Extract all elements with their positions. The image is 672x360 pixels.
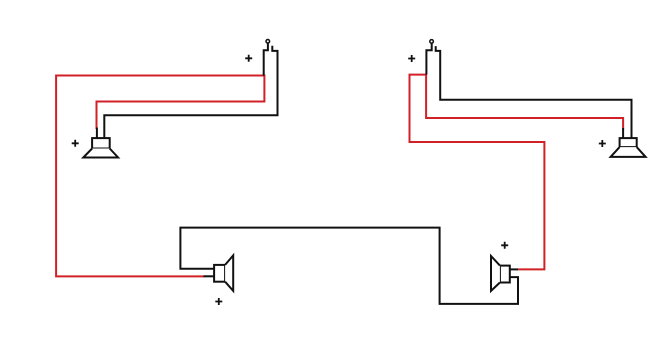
wire black: left plug sleeve to top-left speaker - — [104, 46, 277, 138]
wire red: right plug tip to bottom-right speaker + — [410, 75, 545, 270]
speaker SPK3 bottom-left (stub, magnet, cone) — [204, 255, 234, 291]
+ label at speaker SPK2 — [599, 140, 606, 147]
+ label at speaker SPK4 — [501, 242, 508, 249]
+ label at speaker SPK1 — [72, 140, 79, 147]
speaker SPK2 top-right (stub, magnet, cone) — [611, 128, 646, 157]
wire black: series link bottom-left speaker - to bottom-right speaker - — [180, 228, 518, 304]
+ label at speaker SPK3 — [215, 298, 222, 305]
wire red: left plug tip branch to top-left speaker + — [97, 75, 265, 130]
wire red: right plug tip branch to top-right speaker + — [426, 74, 623, 130]
wire black: right plug sleeve to top-right speaker - — [436, 46, 632, 138]
plug J1 left channel (tip circle, stem, pins) — [264, 40, 270, 76]
speaker SPK4 bottom-right (stub, magnet, cone) — [491, 256, 518, 291]
plug J2 right channel (tip circle, stem, pins) — [426, 40, 433, 75]
+ label at plug J1 — [245, 55, 252, 62]
+ label at plug J2 — [408, 55, 415, 62]
wire red: left plug tip to bottom-left speaker + (long run) — [56, 76, 264, 277]
speaker SPK1 top-left (magnet, cone, stubs) — [83, 128, 118, 158]
